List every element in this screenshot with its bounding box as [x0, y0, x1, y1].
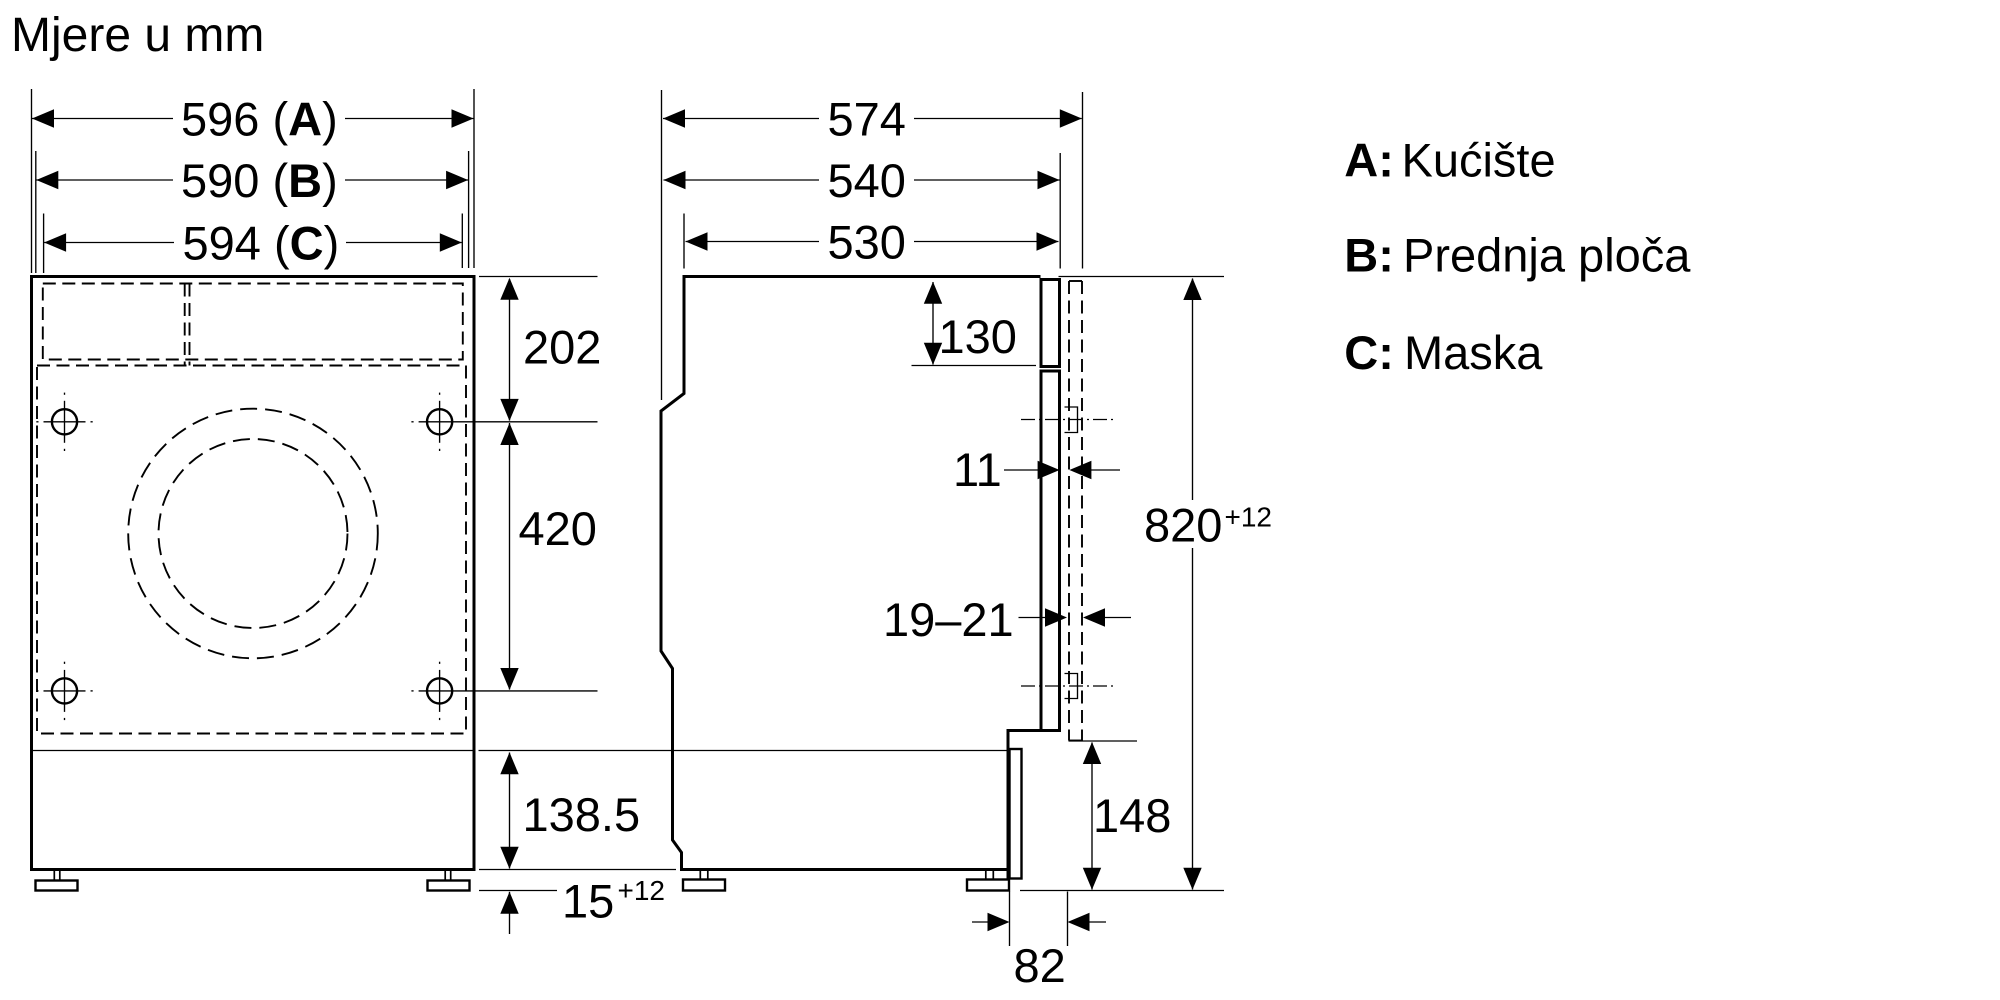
side foot front [967, 870, 1009, 891]
svg-text:530: 530 [828, 216, 906, 269]
dim 590 (B) extension lines [35, 151, 37, 273]
svg-text:594 (C): 594 (C) [183, 217, 340, 270]
dim 594 (C) extension lines [43, 214, 45, 274]
svg-text:540: 540 [828, 154, 906, 207]
dim 148 [1083, 742, 1172, 890]
dim 590 (B) [36, 154, 468, 207]
svg-text:19–21: 19–21 [883, 593, 1014, 646]
dim 594 (C) [44, 217, 462, 270]
dim 202 [500, 278, 601, 421]
dim 130 [924, 282, 1017, 365]
dim 130 bottom extension [912, 365, 1037, 367]
front foot right [428, 870, 470, 891]
side view back and bottom outline [661, 275, 1008, 870]
dim 11 [953, 443, 1120, 496]
svg-text:138.5: 138.5 [523, 788, 641, 841]
svg-text:130: 130 [939, 310, 1017, 363]
side view front lower step [1008, 731, 1041, 881]
mounting hole bottom-right [411, 662, 597, 720]
dim 574 [663, 93, 1082, 146]
hinge bracket top [1065, 407, 1078, 433]
drum inner dashed circle [159, 439, 348, 628]
svg-text:Maska: Maska [1404, 326, 1543, 379]
svg-text:596 (A): 596 (A) [181, 93, 338, 146]
svg-text:574: 574 [828, 93, 906, 146]
mounting hole top-left [36, 393, 92, 451]
machine bottom extension line [479, 869, 676, 871]
svg-text:11: 11 [953, 443, 1002, 496]
dim 15+12 [500, 875, 665, 935]
dim 540 extension line [1059, 153, 1061, 269]
dim 574 extension lines [661, 90, 663, 400]
dim 82 extension lines [1009, 892, 1011, 947]
dim 420 [500, 423, 597, 690]
front panel lower segment (B) [1041, 371, 1060, 731]
svg-text:82: 82 [1014, 939, 1066, 992]
side view top edge [684, 275, 1041, 278]
front panel dashed outline [37, 366, 466, 734]
dim 820+12 [1138, 278, 1278, 890]
dim 540 [664, 154, 1060, 207]
hinge centre line bottom [1021, 685, 1116, 687]
svg-text:148: 148 [1093, 789, 1171, 842]
drum outer dashed circle [128, 409, 378, 659]
svg-text:+12: +12 [618, 875, 666, 906]
dim 530 [686, 216, 1059, 269]
svg-text:820: 820 [1144, 499, 1222, 552]
plinth top line across views [33, 750, 473, 752]
front view body outline [32, 277, 475, 870]
legend C: Maska [1344, 326, 1543, 379]
front foot left [36, 870, 78, 891]
svg-text:A:: A: [1344, 133, 1394, 186]
foot bottom extension line [479, 890, 557, 892]
dim 596 (A) extension lines [31, 89, 33, 273]
plinth cover panel [1010, 749, 1022, 879]
dim 596 (A) [32, 93, 474, 146]
side foot back [683, 870, 725, 891]
svg-text:B:: B: [1344, 229, 1394, 282]
mounting hole top-right [411, 393, 597, 451]
svg-text:Mjere u mm: Mjere u mm [11, 9, 264, 62]
svg-text:202: 202 [523, 321, 601, 374]
front panel upper segment (B) [1041, 280, 1060, 367]
svg-text:C:: C: [1344, 326, 1394, 379]
legend B: Prednja ploca [1344, 229, 1691, 282]
top edge thin extension towards 820 dim [1059, 276, 1225, 278]
top edge extension right of front view [479, 276, 598, 278]
furniture door dashed lines (C) [1069, 281, 1082, 741]
svg-text:590 (B): 590 (B) [181, 154, 338, 207]
hinge centre line top [1021, 419, 1116, 421]
legend A: Kuciste [1344, 133, 1555, 186]
detergent drawer dashed box [43, 284, 463, 360]
svg-text:Prednja ploča: Prednja ploča [1403, 229, 1691, 282]
dim 138.5 [500, 752, 640, 869]
floor line [1020, 890, 1224, 892]
dim 19-21 [883, 593, 1131, 646]
svg-text:15: 15 [562, 875, 614, 928]
drawer divider dashed double line [184, 284, 186, 366]
hinge bracket bottom [1065, 674, 1078, 699]
svg-text:Kućište: Kućište [1402, 133, 1556, 186]
mounting hole bottom-left [36, 662, 92, 720]
dim 82 [972, 913, 1106, 992]
svg-text:+12: +12 [1225, 502, 1273, 533]
dim 148 top extension [1069, 740, 1138, 742]
dim 530 extension line [683, 214, 685, 269]
svg-text:420: 420 [519, 502, 597, 555]
